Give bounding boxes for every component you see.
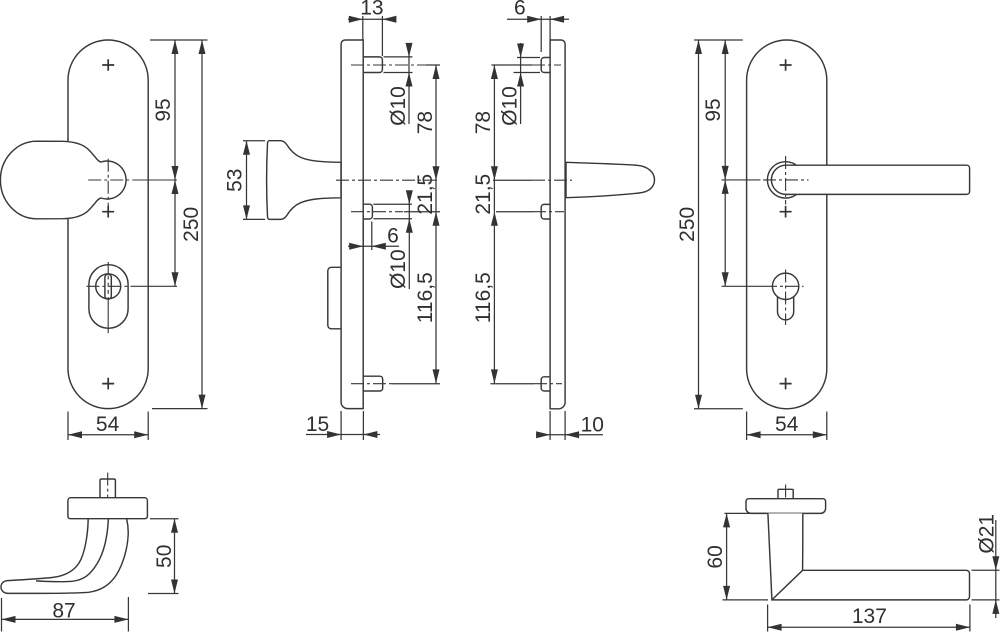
svg-text:54: 54 bbox=[96, 413, 120, 436]
top extension line bbox=[150, 39, 208, 41]
screw cross middle bbox=[102, 206, 114, 218]
spindle (square shaft, top view) bbox=[778, 489, 793, 498]
dim 6 line bbox=[507, 18, 569, 20]
screw top (6 mm) bbox=[541, 58, 550, 73]
spindle (square shaft) bbox=[100, 479, 115, 498]
miter line at elbow bbox=[772, 570, 803, 600]
svg-text:Ø10: Ø10 bbox=[499, 86, 522, 126]
dimension 54 line bbox=[68, 434, 148, 436]
screw bottom (6 mm) bbox=[541, 377, 550, 391]
dim 13 extension lines bbox=[363, 16, 383, 56]
dim 87 extension lines bbox=[2, 597, 129, 632]
dimension 54 extension lines bbox=[68, 412, 148, 441]
svg-text:87: 87 bbox=[52, 599, 75, 622]
svg-text:95: 95 bbox=[702, 98, 725, 121]
backplate side view (10 mm) bbox=[550, 40, 565, 409]
dim Ø10 extension lines bbox=[514, 58, 541, 73]
dim 137 extension lines bbox=[768, 605, 970, 632]
centerline screw bottom bbox=[351, 383, 392, 385]
dim 6 line bbox=[348, 245, 399, 247]
keyway slot bbox=[105, 274, 111, 299]
dimension (centre to cylinder) line bbox=[174, 180, 176, 286]
dimension 95 line bbox=[174, 40, 176, 180]
dim 78 line bbox=[435, 65, 437, 180]
svg-text:250: 250 bbox=[180, 207, 203, 242]
screw cross bottom bbox=[780, 378, 792, 390]
dim 10 line bbox=[536, 434, 603, 436]
keyhole horizontal centerline bbox=[764, 285, 804, 287]
knob side view (trumpet) bbox=[267, 141, 341, 220]
spindle centerline bbox=[107, 473, 109, 525]
dimension 54 line bbox=[747, 434, 827, 436]
handle neck and grip (S-curve side view) bbox=[1, 519, 128, 594]
dim 53 extension lines bbox=[243, 141, 265, 220]
backplate (lever side, front view) bbox=[747, 40, 827, 409]
extension screw bottom to dim bbox=[490, 383, 534, 385]
svg-text:60: 60 bbox=[704, 545, 727, 568]
keyhole stem bbox=[778, 297, 794, 320]
centerline screw bottom bbox=[534, 383, 562, 385]
dim Ø21 extension lines bbox=[972, 570, 1000, 600]
dimension 250 line bbox=[201, 40, 203, 409]
svg-text:21,5: 21,5 bbox=[472, 174, 495, 215]
dim 15 extension lines bbox=[341, 411, 363, 440]
svg-text:13: 13 bbox=[360, 0, 383, 20]
svg-text:95: 95 bbox=[152, 98, 175, 121]
backplate side view (15 mm) bbox=[341, 40, 363, 409]
dim 60 extension lines bbox=[723, 513, 769, 600]
extension screw middle to dim bbox=[404, 211, 440, 213]
extension lever centre to dims bbox=[722, 179, 761, 181]
lever bar bbox=[771, 165, 969, 194]
extension screw top to dim bbox=[492, 64, 533, 66]
svg-text:116,5: 116,5 bbox=[414, 272, 437, 323]
dim 21,5 line (outside arrows) bbox=[435, 180, 437, 212]
lever neck and grip (top view) bbox=[768, 513, 970, 600]
svg-text:78: 78 bbox=[414, 111, 437, 134]
screw cross bottom bbox=[102, 378, 114, 390]
dim 15 line bbox=[306, 434, 380, 436]
dim Ø10 top extension lines bbox=[384, 57, 413, 73]
screw bottom (13 mm) bbox=[363, 376, 383, 391]
svg-text:78: 78 bbox=[472, 111, 495, 134]
centerline screw top bbox=[532, 64, 561, 66]
extension line cylinder centre to dim bbox=[131, 285, 177, 287]
dim 50 line bbox=[174, 519, 176, 594]
top extension line bbox=[694, 39, 743, 41]
dim 78 line bbox=[493, 65, 495, 180]
cylinder cover oval bbox=[89, 265, 128, 329]
svg-text:Ø10: Ø10 bbox=[387, 249, 410, 289]
svg-text:54: 54 bbox=[775, 413, 799, 436]
dimension 54 extension lines bbox=[747, 412, 827, 441]
screw cross top bbox=[780, 59, 792, 71]
dim 60 line bbox=[726, 513, 728, 600]
dim 6 extension lines bbox=[363, 222, 372, 251]
rose outer circle bbox=[767, 162, 803, 198]
extension cylinder centre to dim bbox=[722, 285, 765, 287]
spindle centerline bbox=[785, 485, 787, 521]
dim 21,5 line (outside arrows) bbox=[493, 180, 495, 212]
extension screw top to dim bbox=[426, 64, 440, 66]
svg-text:Ø21: Ø21 bbox=[975, 514, 998, 554]
centerline screw middle bbox=[533, 211, 564, 213]
cylinder cover box (side view) bbox=[328, 267, 341, 329]
dim 87 line bbox=[2, 618, 129, 620]
dim Ø10 middle line bbox=[408, 191, 410, 289]
dim 6 extension lines (top) bbox=[541, 16, 550, 52]
keyhole circle bbox=[772, 273, 798, 299]
centerline cross at lever centre bbox=[763, 179, 809, 181]
centerline screw top bbox=[351, 64, 426, 66]
screw cross top bbox=[102, 59, 114, 71]
screw middle (6 mm) bbox=[541, 204, 550, 219]
svg-text:50: 50 bbox=[153, 545, 176, 568]
knob (front view blob) bbox=[0, 141, 126, 219]
extension screw bottom to dim bbox=[392, 383, 440, 385]
screw top (13 mm) bbox=[363, 57, 382, 73]
extension line knob centre to dims bbox=[134, 179, 177, 181]
dim Ø21 line bbox=[995, 520, 997, 618]
screw middle (6 mm) bbox=[363, 204, 372, 219]
svg-text:10: 10 bbox=[581, 414, 604, 437]
dim Ø10 top line bbox=[408, 43, 410, 124]
svg-text:15: 15 bbox=[306, 413, 329, 436]
svg-text:53: 53 bbox=[223, 169, 246, 192]
cylinder horizontal centerline bbox=[86, 285, 131, 287]
svg-text:21,5: 21,5 bbox=[414, 174, 437, 215]
dim Ø10 line bbox=[520, 43, 522, 124]
cylinder vertical centerline bbox=[107, 262, 109, 333]
centerline lever bbox=[532, 179, 572, 181]
rose (top view) bbox=[746, 499, 826, 514]
dim 50 extension lines bbox=[148, 519, 179, 594]
centerline screw middle bbox=[351, 211, 403, 213]
svg-text:6: 6 bbox=[387, 225, 399, 248]
svg-text:250: 250 bbox=[676, 207, 699, 242]
dimension 95 line bbox=[724, 40, 726, 180]
dim Ø10 middle extension lines bbox=[373, 204, 412, 219]
dim 116,5 line bbox=[493, 212, 495, 384]
dim 137 line bbox=[768, 626, 970, 628]
centerline cross at knob centre bbox=[88, 179, 134, 181]
svg-text:6: 6 bbox=[514, 0, 526, 20]
dim 13 line with outside arrows bbox=[348, 18, 396, 20]
handle inner edge line bbox=[36, 519, 108, 582]
cylinder core circle bbox=[96, 274, 121, 299]
extension lever centre to dim bbox=[493, 179, 532, 181]
rose (side view) bbox=[68, 498, 147, 519]
dim 10 extension lines bbox=[550, 411, 565, 440]
dimension (centre to cylinder) line bbox=[724, 180, 726, 286]
extension screw middle to dim bbox=[496, 211, 533, 213]
bottom extension line bbox=[694, 408, 743, 410]
centerline knob bbox=[336, 179, 440, 181]
bottom extension line bbox=[152, 408, 208, 410]
lever grip side view bbox=[566, 162, 655, 197]
screw cross middle bbox=[780, 206, 792, 218]
svg-text:137: 137 bbox=[852, 605, 887, 628]
svg-text:Ø10: Ø10 bbox=[387, 86, 410, 126]
dim 53 line bbox=[246, 141, 248, 220]
backplate (knob side, front view) bbox=[68, 40, 148, 409]
dimension 250 line bbox=[698, 40, 700, 409]
keyhole vertical centerline bbox=[785, 270, 787, 326]
dim 116,5 line bbox=[435, 212, 437, 384]
svg-text:116,5: 116,5 bbox=[472, 272, 495, 323]
